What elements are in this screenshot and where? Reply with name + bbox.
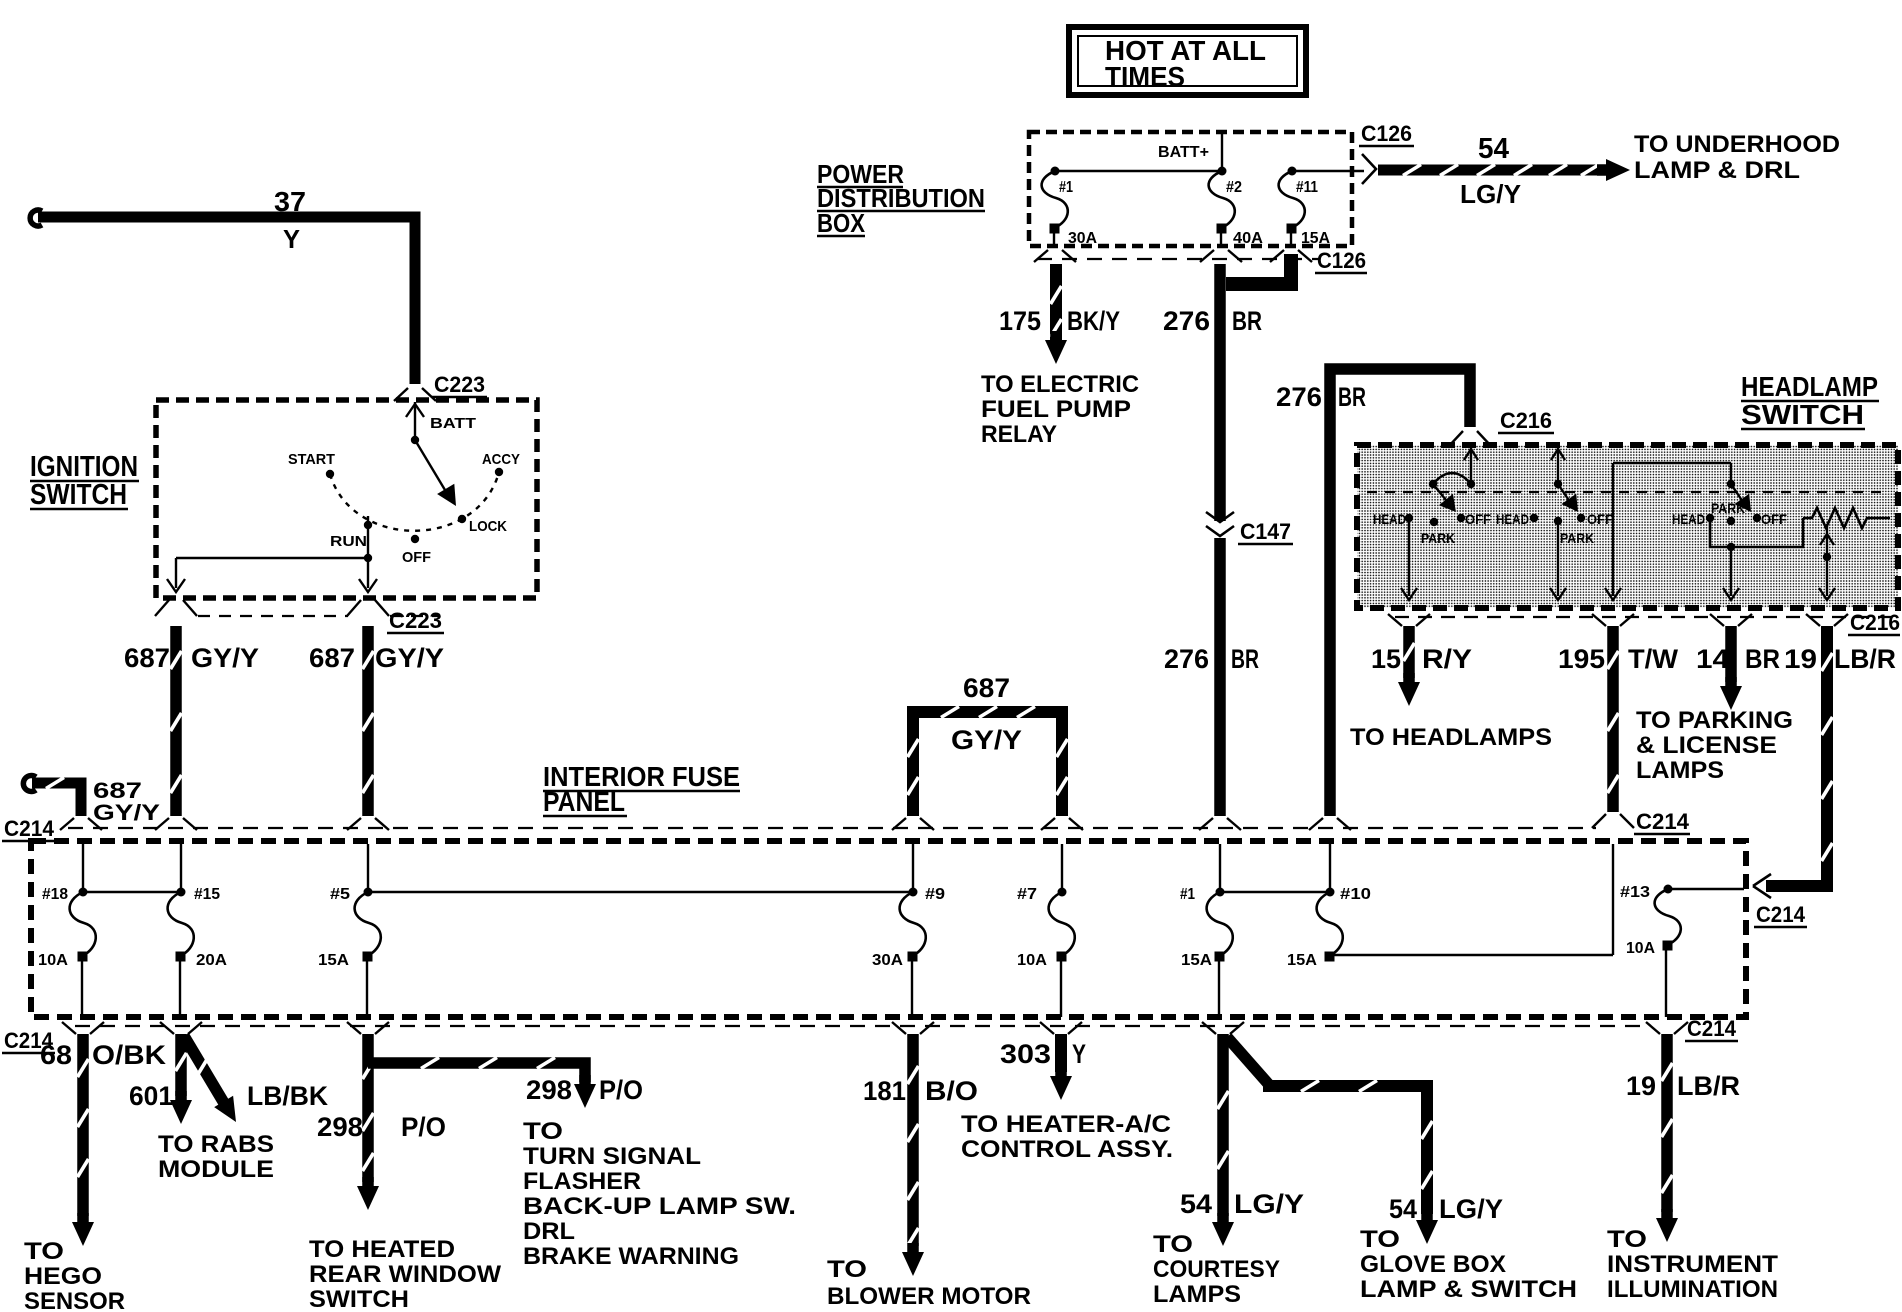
label 19 LB/R upper [1784, 644, 1896, 674]
label 14 BR [1696, 644, 1780, 674]
svg-text:O/BK: O/BK [92, 1040, 167, 1070]
svg-text:687: 687 [309, 643, 355, 673]
svg-text:P/O: P/O [401, 1112, 446, 1142]
svg-text:15: 15 [1371, 644, 1401, 674]
svg-text:LB/BK: LB/BK [247, 1081, 328, 1111]
wire 181 B/O [902, 1034, 924, 1276]
label 54 LG/Y courtesy [1180, 1189, 1304, 1219]
switch 3 PARK [1711, 500, 1745, 525]
connector C214 right side entry [1753, 874, 1807, 927]
svg-text:C126: C126 [1361, 121, 1412, 146]
fuse #7 10A [1017, 886, 1075, 1017]
svg-text:37: 37 [274, 186, 306, 217]
wire 175 BK/Y [1045, 264, 1067, 364]
fuse #1 30A [1042, 167, 1098, 248]
panel entry funnels top [60, 818, 1351, 830]
svg-text:#18: #18 [42, 886, 68, 903]
wire 276 BR headlamp feed [1330, 369, 1470, 816]
svg-text:BLOWER MOTOR: BLOWER MOTOR [827, 1283, 1031, 1310]
label 175 BK/Y [999, 306, 1120, 336]
power distribution box label [817, 159, 985, 238]
label 298 P/O left [317, 1112, 446, 1142]
svg-text:BACK-UP LAMP SW.: BACK-UP LAMP SW. [523, 1193, 796, 1220]
svg-text:#5: #5 [330, 886, 350, 903]
svg-text:C223: C223 [389, 608, 442, 633]
svg-text:MODULE: MODULE [158, 1156, 274, 1183]
label 601 LB/BK [129, 1081, 328, 1111]
wire 687 GY/Y right [363, 626, 374, 816]
svg-text:CONTROL ASSY.: CONTROL ASSY. [961, 1136, 1173, 1163]
label 687 GY/Y right [309, 643, 444, 673]
fuse #15 20A [168, 886, 228, 1017]
wire 687 GY/Y hook [23, 776, 81, 817]
svg-text:54: 54 [1478, 133, 1509, 165]
panel bus 18-15 [83, 891, 181, 893]
wire 298 branch [368, 1058, 596, 1109]
svg-text:LAMPS: LAMPS [1636, 757, 1724, 784]
switch 1 PARK [1421, 518, 1455, 546]
svg-text:BK/Y: BK/Y [1067, 306, 1120, 336]
svg-text:10A: 10A [1626, 940, 1655, 957]
svg-text:298: 298 [526, 1075, 572, 1105]
switch 3 pivot [1727, 480, 1735, 488]
svg-text:19: 19 [1626, 1071, 1656, 1101]
svg-text:BOX: BOX [817, 208, 866, 238]
svg-text:LOCK: LOCK [469, 518, 507, 535]
text to underhood lamp & drl [1634, 131, 1840, 184]
switch 1 wiper arc [1429, 473, 1471, 488]
svg-text:#11: #11 [1296, 179, 1318, 196]
switch 3 bracket [1710, 518, 1803, 547]
switch 2 OFF [1577, 511, 1614, 527]
svg-text:HEAD: HEAD [1373, 511, 1406, 527]
svg-text:PARK: PARK [1421, 530, 1455, 546]
svg-text:TO HEADLAMPS: TO HEADLAMPS [1350, 724, 1552, 751]
svg-text:START: START [288, 451, 335, 468]
switch 2 HEAD [1496, 511, 1538, 527]
svg-text:601: 601 [129, 1081, 173, 1111]
svg-text:195: 195 [1558, 644, 1605, 674]
svg-text:#10: #10 [1340, 886, 1371, 903]
svg-text:15A: 15A [1181, 952, 1212, 969]
svg-text:RUN: RUN [330, 533, 367, 550]
label 181 B/O [863, 1076, 978, 1106]
switch 3 park junction [1723, 543, 1739, 600]
svg-text:SENSOR: SENSOR [24, 1288, 125, 1312]
wire 37 Y [30, 210, 415, 384]
fuse #1 15A [1180, 886, 1233, 1017]
label 687 GY/Y left [124, 643, 259, 673]
connector C214 bottom left [2, 1028, 55, 1053]
switch 2 park output [1550, 521, 1566, 600]
svg-text:ILLUMINATION: ILLUMINATION [1607, 1276, 1778, 1303]
svg-text:INSTRUMENT: INSTRUMENT [1607, 1251, 1778, 1278]
svg-text:GLOVE BOX: GLOVE BOX [1360, 1251, 1506, 1278]
connector C214 bottom right [1685, 1016, 1738, 1041]
bus wire [1055, 170, 1222, 172]
svg-text:BATT+: BATT+ [1158, 144, 1209, 161]
svg-text:BR: BR [1338, 382, 1366, 412]
switch track dashed line [1367, 491, 1888, 493]
hot at all times box [1069, 27, 1306, 95]
text to heated rear window switch [309, 1236, 501, 1312]
label BATT [430, 415, 476, 432]
label 276 BR feed [1276, 382, 1366, 412]
svg-text:T/W: T/W [1628, 644, 1679, 674]
panel feed lines [83, 844, 1330, 892]
label 687 GY/Y hook [93, 778, 160, 825]
svg-text:TO: TO [1360, 1226, 1400, 1253]
connector C126 below box [1034, 248, 1367, 273]
svg-text:FUEL PUMP: FUEL PUMP [981, 396, 1131, 423]
connector C147 [1206, 512, 1293, 544]
svg-text:BR: BR [1231, 644, 1259, 674]
batt feed line [406, 402, 424, 444]
interior fuse panel label [543, 761, 740, 817]
svg-text:30A: 30A [872, 952, 903, 969]
wire 276 BR [1214, 264, 1226, 816]
label 687 loop [951, 673, 1022, 755]
wire 303 Y [1050, 1034, 1072, 1100]
text to instrument illumination [1607, 1226, 1778, 1303]
svg-text:C214: C214 [1636, 809, 1690, 834]
svg-text:SWITCH: SWITCH [309, 1286, 409, 1312]
svg-text:181: 181 [863, 1076, 906, 1106]
label 303 Y [1000, 1039, 1086, 1069]
svg-text:B/O: B/O [925, 1076, 978, 1106]
svg-text:LB/R: LB/R [1677, 1071, 1740, 1101]
label 68 O/BK [40, 1040, 167, 1070]
svg-text:TO ELECTRIC: TO ELECTRIC [981, 371, 1139, 398]
svg-text:HEAD: HEAD [1496, 511, 1529, 527]
label BATT+ [1158, 144, 1209, 161]
svg-text:SWITCH: SWITCH [1741, 399, 1864, 430]
svg-text:GY/Y: GY/Y [951, 725, 1022, 755]
svg-text:PANEL: PANEL [543, 786, 625, 817]
connector C214 line below panel [75, 1025, 1650, 1027]
wire 15 R/Y [1398, 626, 1420, 706]
position START [288, 451, 335, 478]
connector C214 entry 195 [1592, 809, 1690, 834]
fuse #11 15A [1279, 167, 1331, 248]
text to parking & license lamps [1636, 707, 1793, 784]
svg-text:30A: 30A [1068, 230, 1097, 247]
svg-text:15A: 15A [1287, 952, 1317, 969]
text to heater a/c control assy [961, 1111, 1173, 1163]
svg-text:276: 276 [1276, 382, 1322, 412]
svg-text:LAMPS: LAMPS [1153, 1281, 1241, 1308]
wire 10 to 13 feed [1329, 844, 1613, 955]
svg-text:REAR WINDOW: REAR WINDOW [309, 1261, 501, 1288]
svg-text:687: 687 [124, 643, 170, 673]
svg-text:HEADLAMP: HEADLAMP [1741, 371, 1878, 402]
svg-text:303: 303 [1000, 1039, 1051, 1069]
switch 2 wiper arm [1558, 484, 1578, 512]
svg-text:OFF: OFF [1761, 511, 1787, 527]
svg-text:C216: C216 [1850, 610, 1900, 635]
connector C223 bottom [155, 600, 444, 633]
switch 2 feed [1551, 446, 1565, 488]
switch 1 head output [1401, 518, 1417, 600]
svg-text:BRAKE WARNING: BRAKE WARNING [523, 1243, 739, 1270]
fuse #5 15A [318, 886, 381, 1017]
svg-text:TO HEATER-A/C: TO HEATER-A/C [961, 1111, 1171, 1138]
position RUN [330, 521, 372, 550]
svg-text:19: 19 [1784, 644, 1817, 674]
switch dimmer output [1819, 524, 1835, 600]
svg-text:BATT: BATT [430, 415, 476, 432]
svg-text:276: 276 [1164, 644, 1209, 674]
svg-text:#1: #1 [1180, 886, 1195, 903]
svg-text:C214: C214 [1687, 1016, 1737, 1041]
wire 54 branch diagonal [1227, 1037, 1271, 1087]
wire 54 LG/Y courtesy [1212, 1034, 1234, 1246]
svg-text:54: 54 [1180, 1189, 1212, 1219]
text to electric fuel pump relay [981, 371, 1139, 448]
svg-text:175: 175 [999, 306, 1041, 336]
svg-text:Y: Y [283, 224, 300, 254]
svg-text:LB/R: LB/R [1834, 644, 1896, 674]
svg-text:TO: TO [827, 1256, 867, 1283]
connector C126 right exit [1359, 121, 1414, 184]
ignition switch box [156, 400, 537, 598]
svg-text:GY/Y: GY/Y [191, 643, 259, 673]
headlamp switch label [1741, 371, 1879, 430]
wire 54 branch [1263, 1081, 1438, 1245]
svg-text:P/O: P/O [599, 1075, 643, 1105]
label 15 R/Y [1371, 644, 1472, 674]
svg-text:GY/Y: GY/Y [93, 800, 160, 825]
wire fuse 11 jumper [1226, 254, 1291, 284]
svg-text:HEAD: HEAD [1672, 511, 1705, 527]
label 54 LG/Y glove [1389, 1194, 1503, 1224]
text to rabs module [158, 1131, 274, 1183]
connector C223 top [394, 372, 487, 401]
svg-text:14: 14 [1696, 644, 1729, 674]
svg-text:276: 276 [1163, 306, 1210, 336]
label 276 BR upper [1163, 306, 1262, 336]
power distribution box [1029, 132, 1352, 246]
wire 298 P/O [357, 1034, 379, 1210]
position ACCY [482, 451, 520, 476]
svg-text:#2: #2 [1226, 179, 1242, 196]
wire 54 LG/Y underhood [1378, 159, 1630, 181]
svg-text:C126: C126 [1317, 248, 1366, 273]
text to blower motor [827, 1256, 1031, 1310]
label 276 BR lower [1164, 644, 1259, 674]
svg-text:#1: #1 [1059, 179, 1073, 196]
svg-text:TO UNDERHOOD: TO UNDERHOOD [1634, 131, 1840, 158]
switch feed line 195 [1605, 463, 1731, 600]
svg-text:#9: #9 [925, 886, 945, 903]
svg-text:68: 68 [40, 1040, 72, 1070]
fuse #2 40A [1209, 167, 1264, 248]
svg-text:GY/Y: GY/Y [375, 643, 444, 673]
panel bus 1-10 [1220, 891, 1330, 893]
text to headlamps [1350, 724, 1552, 751]
svg-text:10A: 10A [38, 952, 68, 969]
label 19 LB/R lower [1626, 1071, 1740, 1101]
svg-text:#15: #15 [194, 886, 220, 903]
fuse #18 10A [38, 886, 96, 1017]
switch 2 PARK [1554, 517, 1594, 546]
text to courtesy lamps [1153, 1231, 1280, 1308]
svg-text:10A: 10A [1017, 952, 1047, 969]
svg-text:TO: TO [523, 1118, 563, 1145]
label LG/Y [1460, 179, 1521, 209]
svg-text:TO HEATED: TO HEATED [309, 1236, 455, 1263]
wire 14 BR [1720, 626, 1742, 710]
svg-text:COURTESY: COURTESY [1153, 1256, 1280, 1283]
text to hego sensor [24, 1238, 125, 1312]
svg-text:LG/Y: LG/Y [1439, 1194, 1503, 1224]
interior fuse panel box [31, 841, 1746, 1017]
svg-text:15A: 15A [318, 952, 349, 969]
fuse #10 15A [1287, 886, 1371, 969]
svg-text:LG/Y: LG/Y [1460, 179, 1521, 209]
resistor dimmer [1803, 508, 1890, 528]
switch 3 HEAD [1672, 511, 1714, 527]
text to glove box lamp & switch [1360, 1226, 1577, 1303]
svg-text:LG/Y: LG/Y [1234, 1189, 1304, 1219]
switch 3 OFF [1753, 511, 1788, 527]
connector C216 top [1449, 408, 1554, 446]
svg-text:TO: TO [1153, 1231, 1193, 1258]
svg-text:R/Y: R/Y [1422, 644, 1472, 674]
wire 19 LB/R lower [1656, 1034, 1678, 1242]
svg-text:LAMP & SWITCH: LAMP & SWITCH [1360, 1276, 1577, 1303]
svg-text:OFF: OFF [1465, 511, 1491, 527]
label 54 [1478, 133, 1509, 165]
svg-text:687: 687 [963, 673, 1010, 703]
label 195 T/W [1558, 644, 1679, 674]
run output wire [167, 516, 377, 592]
svg-text:C214: C214 [4, 816, 55, 841]
text to turn signal flasher [523, 1118, 796, 1270]
svg-text:TO RABS: TO RABS [158, 1131, 274, 1158]
ignition arc [330, 472, 499, 531]
svg-text:20A: 20A [196, 952, 227, 969]
svg-text:ACCY: ACCY [482, 451, 520, 468]
svg-text:#7: #7 [1017, 886, 1037, 903]
svg-text:DRL: DRL [523, 1218, 575, 1245]
connector C214 line above panel [68, 827, 1596, 829]
svg-text:15A: 15A [1301, 230, 1330, 247]
svg-text:BR: BR [1232, 306, 1262, 336]
label 37 Y [274, 186, 306, 254]
ignition switch label [30, 451, 139, 511]
svg-text:TO PARKING: TO PARKING [1636, 707, 1793, 734]
svg-text:298: 298 [317, 1112, 363, 1142]
wire 687 GY/Y left [171, 626, 182, 816]
headlamp switch box [1357, 445, 1898, 608]
svg-text:C214: C214 [1756, 902, 1806, 927]
svg-text:& LICENSE: & LICENSE [1636, 732, 1777, 759]
wire 601 [170, 1034, 192, 1124]
svg-text:OFF: OFF [402, 549, 431, 566]
wire 687 GY/Y loop [908, 707, 1068, 817]
wire 68 O/BK [72, 1034, 94, 1246]
svg-text:HEGO: HEGO [24, 1263, 102, 1290]
svg-text:FLASHER: FLASHER [523, 1168, 641, 1195]
ignition rotor arm [415, 440, 456, 506]
svg-text:PARK: PARK [1711, 500, 1745, 516]
wire 195 T/W [1608, 626, 1619, 812]
svg-text:TURN SIGNAL: TURN SIGNAL [523, 1143, 701, 1170]
wire batt feed [1221, 134, 1223, 171]
svg-text:PARK: PARK [1560, 530, 1594, 546]
panel bus 5-9 [368, 891, 913, 893]
svg-text:54: 54 [1389, 1194, 1417, 1224]
switch 1 HEAD [1373, 511, 1413, 527]
switch 1 feed [1464, 446, 1478, 488]
panel exit funnels bottom [62, 1022, 1688, 1034]
wire LB/BK branch [184, 1036, 236, 1122]
bus wire [1292, 170, 1364, 172]
wire 19 LB/R upper [1766, 626, 1833, 886]
switch 1 wiper arm [1433, 484, 1456, 512]
svg-text:40A: 40A [1233, 230, 1263, 247]
svg-text:C223: C223 [434, 372, 485, 397]
connector C214 top left [2, 816, 56, 841]
svg-text:RELAY: RELAY [981, 421, 1057, 448]
switch 1 OFF [1457, 511, 1492, 527]
svg-text:C216: C216 [1500, 408, 1552, 433]
svg-text:TO: TO [1607, 1226, 1647, 1253]
label 298 P/O right [526, 1075, 643, 1105]
svg-text:BR: BR [1745, 644, 1780, 674]
svg-text:LAMP & DRL: LAMP & DRL [1634, 157, 1800, 184]
connector C216 bottom [1388, 610, 1900, 635]
svg-text:SWITCH: SWITCH [30, 479, 127, 511]
switch 3 wiper arm [1731, 484, 1751, 512]
svg-text:Y: Y [1072, 1039, 1086, 1069]
svg-text:C147: C147 [1240, 519, 1291, 544]
svg-text:TO: TO [24, 1238, 64, 1265]
position OFF [402, 535, 431, 566]
svg-text:TIMES: TIMES [1105, 61, 1185, 92]
svg-text:OFF: OFF [1587, 511, 1613, 527]
position LOCK [458, 515, 507, 535]
fuse #9 30A [872, 886, 945, 1017]
svg-text:#13: #13 [1620, 884, 1650, 901]
fuse #13 10A [1620, 884, 1744, 1017]
